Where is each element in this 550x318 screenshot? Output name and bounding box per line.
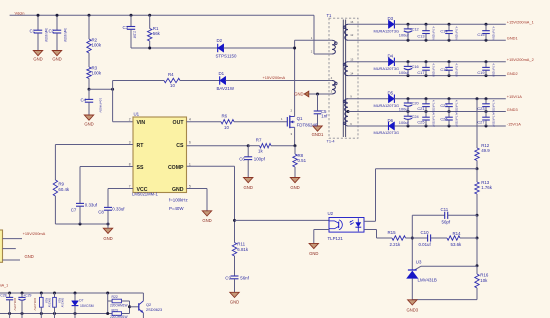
wire load bus (0, 292, 143, 294)
svg-text:1: 1 (189, 162, 191, 166)
svg-text:C9: C9 (225, 275, 231, 280)
ground (C6) (244, 178, 253, 190)
capacitor C11 (412, 207, 477, 224)
svg-text:1nf: 1nf (321, 114, 328, 119)
resistor R3 (87, 65, 102, 78)
svg-text:+C29: +C29 (23, 294, 31, 298)
resistor R16 (475, 266, 489, 300)
svg-text:C23: C23 (477, 106, 484, 111)
svg-text:4.7uF/25V: 4.7uF/25V (455, 63, 459, 77)
secondary winding 4 (343, 110, 349, 126)
svg-text:100uf: 100uf (399, 70, 410, 75)
svg-text:C10: C10 (421, 230, 430, 235)
svg-text:4.7uF/25V: 4.7uF/25V (492, 113, 496, 127)
wire SS pin (80, 166, 133, 168)
svg-text:5: 5 (189, 184, 191, 188)
svg-text:R4: R4 (168, 72, 174, 77)
capacitor C14 (440, 23, 458, 42)
svg-text:MURA120T3G: MURA120T3G (374, 130, 400, 135)
svg-text:16: 16 (350, 20, 354, 24)
svg-text:C17: C17 (417, 70, 424, 75)
svg-text:3nF/400V: 3nF/400V (44, 28, 48, 43)
svg-text:C22: C22 (440, 103, 447, 108)
wire fb left vertical (411, 215, 414, 270)
U1 pin numbers (129, 118, 191, 189)
resistor R1 (148, 14, 161, 48)
svg-text:4.7uF/25V: 4.7uF/25V (492, 100, 496, 114)
svg-text:GND: GND (172, 187, 184, 193)
primary winding pins (311, 20, 354, 126)
node source/CS (294, 144, 297, 147)
primary winding (332, 40, 337, 54)
svg-text:GND: GND (290, 185, 299, 190)
svg-text:U2: U2 (328, 211, 334, 216)
resistor R23 (110, 301, 131, 318)
svg-text:COMP: COMP (168, 165, 184, 171)
svg-text:2SD0623: 2SD0623 (146, 307, 162, 312)
svg-text:FDT86246: FDT86246 (297, 123, 318, 128)
svg-text:100pf: 100pf (254, 156, 266, 161)
svg-text:D6: D6 (388, 118, 394, 123)
wire J1 pin2 (3, 248, 16, 250)
net label +15V/200mA (J1) (23, 231, 46, 236)
svg-text:C2: C2 (49, 28, 55, 33)
svg-text:CS: CS (176, 143, 184, 149)
svg-text:C1: C1 (30, 28, 36, 33)
resistor R19 (53, 292, 65, 318)
svg-text:+15V/200mA_2: +15V/200mA_2 (507, 57, 534, 62)
transistor Q1 FDT86246 (281, 109, 318, 146)
svg-text:C18: C18 (440, 67, 447, 72)
wire R2-R3 (88, 53, 90, 67)
transistor Q2 2SD0623 (139, 293, 162, 318)
connector J1 (edge) (0, 230, 3, 262)
svg-text:D4: D4 (388, 54, 394, 59)
ground GND3 (U3) (406, 300, 418, 313)
svg-text:MURA120T3G: MURA120T3G (374, 103, 400, 108)
svg-text:GND3: GND3 (507, 107, 518, 112)
ground (C2) (52, 51, 61, 62)
svg-text:STPS1150: STPS1150 (216, 54, 237, 59)
resistor R18 (40, 292, 52, 318)
resistor R22 (106, 292, 129, 316)
wire primary top to drain (295, 39, 332, 41)
svg-text:T1: T1 (327, 13, 333, 18)
resistor R14 (447, 231, 477, 247)
wire J1 pin1 (3, 238, 23, 240)
aux winding (332, 81, 337, 95)
svg-text:0.01uf: 0.01uf (419, 242, 432, 247)
svg-text:R13: R13 (481, 180, 490, 185)
svg-text:0.33uf: 0.33uf (112, 207, 125, 212)
capacitor C8 (98, 189, 125, 225)
wire COMP to opto (235, 219, 330, 221)
svg-text:D2: D2 (217, 38, 223, 43)
capacitor C19 (477, 60, 495, 77)
wire bus to primary bottom (314, 15, 332, 54)
capacitor C9 (225, 275, 249, 292)
svg-text:6: 6 (189, 140, 191, 144)
ground (C4) (84, 115, 93, 127)
svg-text:GND1: GND1 (312, 132, 324, 137)
svg-text:P=40W: P=40W (169, 206, 184, 211)
svg-text:4: 4 (189, 118, 191, 122)
svg-text:GND: GND (294, 92, 303, 97)
resistor R9 (53, 180, 70, 224)
svg-text:C28: C28 (0, 294, 6, 298)
svg-text:OUT: OUT (173, 120, 185, 126)
capacitor C26 (440, 112, 458, 128)
svg-text:GND: GND (52, 56, 61, 61)
capacitor C6 (239, 146, 265, 178)
net label +15V/200mA (aux) (263, 75, 286, 80)
capacitor C2 (49, 14, 67, 51)
svg-text:53.6k: 53.6k (451, 242, 463, 247)
capacitor C15 (477, 23, 495, 42)
svg-text:3nF/400V: 3nF/400V (63, 28, 67, 43)
svg-text:+15V/200mA: +15V/200mA (263, 75, 286, 80)
diode D5 MURA120T3G (348, 91, 506, 108)
diode D7 15VCSM (72, 292, 94, 318)
svg-text:100U/25V: 100U/25V (13, 298, 17, 311)
svg-text:C27: C27 (477, 120, 484, 125)
svg-text:49.9: 49.9 (481, 148, 490, 153)
svg-text:4.7uF/25V: 4.7uF/25V (455, 113, 459, 127)
svg-text:60.4k: 60.4k (58, 187, 70, 192)
svg-text:T1-4: T1-4 (327, 139, 336, 144)
svg-text:+15V/200mA_1: +15V/200mA_1 (507, 20, 534, 25)
U1 pin names (137, 120, 185, 193)
diode D6 MURA120T3G (348, 118, 506, 135)
svg-text:D5: D5 (388, 91, 394, 96)
wire Q2 base (130, 306, 139, 308)
ground (aux winding) (294, 91, 309, 97)
svg-text:C7: C7 (71, 208, 77, 213)
svg-text:100k: 100k (92, 71, 102, 76)
svg-text:4.7uF/25V: 4.7uF/25V (492, 63, 496, 77)
svg-text:4.7uF/25V: 4.7uF/25V (455, 26, 459, 40)
svg-text:4.7uF/25V: 4.7uF/25V (432, 113, 436, 127)
svg-text:+C12: +C12 (409, 27, 418, 32)
svg-text:MURA120T3G: MURA120T3G (374, 29, 400, 34)
svg-text:220OHM1W: 220OHM1W (110, 303, 128, 307)
node opto anode (476, 167, 479, 170)
wire Vdcin top bus (10, 14, 314, 16)
wire node to VIN riser (89, 88, 114, 91)
svg-text:C19: C19 (477, 70, 484, 75)
diode D1 BAV21W (180, 71, 332, 91)
wire to ref node (476, 238, 479, 267)
svg-text:C14: C14 (440, 29, 448, 34)
capacitor C23 (477, 97, 495, 114)
capacitor C21 (417, 97, 435, 114)
svg-text:4.7uF/25V: 4.7uF/25V (492, 26, 496, 40)
svg-text:C15: C15 (477, 32, 484, 37)
svg-text:100uf: 100uf (399, 33, 410, 38)
U1 value labels (132, 191, 188, 211)
wire aux winding bottom (309, 93, 332, 96)
resistor R6 (187, 114, 288, 130)
capacitor C17 (417, 60, 435, 77)
svg-text:100uf: 100uf (399, 120, 410, 125)
opto phototransistor (329, 220, 342, 230)
wire VCC pin (108, 188, 133, 190)
wire opto anode riser (364, 169, 477, 222)
svg-text:R6: R6 (222, 114, 228, 119)
net label GND (J1) (25, 254, 34, 259)
wire +15V to R12 (476, 97, 479, 148)
wire R3 to node (88, 79, 91, 91)
resistor R13 (475, 169, 493, 216)
svg-text:R16: R16 (480, 273, 489, 278)
svg-text:GND3: GND3 (406, 307, 418, 312)
ground (C1) (33, 51, 42, 62)
capacitor C12 (399, 23, 419, 42)
svg-text:10: 10 (170, 83, 175, 88)
resistor R12 (475, 143, 491, 169)
capacitor C1 (30, 14, 48, 51)
ground (VCC bus) (103, 228, 112, 241)
secondary winding 1 (343, 24, 348, 40)
resistor R7 (248, 138, 295, 154)
wire load rail B (0, 313, 130, 315)
wire ref row (414, 266, 477, 270)
net label +15V/200mA_2 (507, 57, 534, 62)
svg-text:R14: R14 (453, 231, 462, 236)
svg-text:100U/25V: 100U/25V (33, 298, 37, 311)
svg-text:GND1: GND1 (507, 36, 518, 41)
svg-text:C3: C3 (123, 25, 129, 30)
wire bottom fb (412, 299, 477, 301)
transformer T1 box (327, 13, 359, 144)
net label GND1 (507, 36, 518, 41)
svg-text:7: 7 (129, 184, 131, 188)
net label GND2 (507, 71, 518, 76)
svg-text:100k: 100k (92, 43, 102, 48)
svg-text:R15: R15 (388, 230, 397, 235)
svg-text:GND: GND (33, 56, 42, 61)
svg-text:-15V/1A: -15V/1A (507, 121, 521, 126)
capacitor C18 (440, 60, 458, 77)
svg-text:2.21k: 2.21k (390, 242, 402, 247)
svg-text:1k: 1k (258, 149, 263, 154)
svg-text:0.33uf: 0.33uf (85, 203, 98, 208)
svg-text:12: 12 (350, 33, 354, 37)
wire RT to R9 (55, 145, 133, 181)
ground GND1 (C5) (312, 126, 324, 137)
resistor R15 (388, 230, 413, 247)
svg-text:C26: C26 (440, 117, 447, 122)
wire J1 pin3 (3, 259, 21, 261)
svg-text:30K1W: 30K1W (47, 298, 51, 308)
svg-text:+C20: +C20 (409, 101, 419, 106)
wire SS/RT bottom bus (55, 223, 109, 226)
ground (C9) (230, 292, 239, 304)
resistor R4 (113, 72, 180, 88)
svg-text:C6: C6 (239, 156, 245, 161)
op-amp U1 LM5021 box (133, 112, 187, 193)
net label +15V/1A (507, 94, 522, 99)
diode D3 MURA120T3G (348, 16, 506, 33)
capacitor C27 (477, 112, 495, 128)
svg-text:D1: D1 (219, 71, 225, 76)
svg-text:Q1: Q1 (297, 116, 303, 121)
svg-text:LMV431B: LMV431B (418, 278, 437, 283)
svg-text:GND: GND (230, 300, 239, 305)
svg-text:C4: C4 (81, 98, 87, 103)
resistor R11 (232, 241, 249, 275)
svg-text:0.51: 0.51 (298, 158, 307, 163)
capacitor C25 (417, 112, 435, 128)
resistor R8 (293, 146, 307, 178)
svg-text:10nF/400V: 10nF/400V (99, 98, 103, 113)
svg-text:C8: C8 (98, 209, 104, 214)
node C11 right (476, 214, 479, 217)
capacitor C29 (18, 292, 36, 318)
secondary winding 2 (343, 62, 348, 76)
svg-text:1.76k: 1.76k (481, 185, 493, 190)
shunt regulator U3 LMV431B (406, 260, 437, 300)
svg-text:C25: C25 (417, 120, 424, 125)
capacitor C20 (399, 97, 420, 113)
svg-text:R9: R9 (58, 182, 64, 187)
svg-text:D7: D7 (79, 299, 83, 303)
wire GND3 rail (348, 111, 506, 113)
svg-text:100uf: 100uf (399, 106, 410, 111)
svg-text:RT: RT (137, 143, 145, 149)
svg-text:10k: 10k (480, 278, 488, 283)
wire GND1 rail (348, 39, 506, 41)
wire U1 GND pin (187, 189, 208, 211)
ground (opto) (309, 243, 318, 255)
svg-text:4.7uF/25V: 4.7uF/25V (455, 100, 459, 114)
svg-text:U1: U1 (134, 112, 140, 117)
svg-text:14: 14 (350, 71, 354, 75)
capacitor C5 (314, 94, 328, 126)
svg-text:GND: GND (84, 122, 93, 127)
svg-text:C21: C21 (417, 106, 424, 111)
svg-text:10: 10 (224, 125, 229, 130)
svg-text:VIN: VIN (137, 120, 146, 126)
svg-text:56pf: 56pf (442, 220, 451, 225)
svg-text:2: 2 (129, 118, 131, 122)
svg-text:+15V/200mA_1: +15V/200mA_1 (0, 283, 8, 287)
svg-text:GND2: GND2 (507, 71, 518, 76)
capacitor C10 (412, 230, 447, 247)
wire aux node down to VIN (113, 81, 133, 122)
svg-text:4.7uF/25V: 4.7uF/25V (432, 100, 436, 114)
wire drain node (293, 40, 296, 112)
diode D4 MURA120T3G (348, 54, 506, 71)
ground (R8) (290, 178, 299, 190)
wire COMP down (187, 166, 237, 242)
svg-text:+15V/1A: +15V/1A (507, 94, 522, 99)
capacitor C22 (440, 97, 458, 114)
svg-text:D3: D3 (388, 16, 394, 21)
capacitor C16 (399, 60, 419, 77)
svg-text:R22: R22 (112, 295, 118, 299)
net label GND3 (507, 107, 518, 112)
svg-text:GND: GND (244, 185, 253, 190)
net label +15V/200mA_1 (507, 20, 534, 25)
capacitor C7 (71, 167, 98, 225)
svg-text:6.81k: 6.81k (237, 247, 249, 252)
capacitor C13 (417, 23, 435, 42)
svg-text:R7: R7 (256, 138, 262, 143)
svg-text:15VCSM: 15VCSM (80, 304, 94, 308)
svg-text:SS: SS (137, 165, 144, 171)
optocoupler U2 TLP121 box (328, 211, 365, 241)
net label Vdcin (15, 10, 25, 15)
svg-text:f=100kHz: f=100kHz (169, 197, 188, 202)
ground (U1) (202, 211, 211, 223)
svg-text:LM5021MM-1: LM5021MM-1 (132, 191, 159, 196)
svg-text:C11: C11 (441, 207, 449, 212)
wire R13 to C10 node (476, 215, 479, 239)
wire GND2 rail (348, 75, 506, 77)
svg-text:+C16: +C16 (409, 64, 418, 69)
svg-text:15: 15 (350, 58, 354, 62)
svg-text:Vdcin: Vdcin (15, 10, 25, 15)
svg-text:U3: U3 (416, 260, 422, 265)
svg-text:C13: C13 (417, 33, 424, 38)
wire opto emitter (314, 230, 329, 244)
net label +15V/200mA_1 (load) (0, 283, 8, 287)
svg-text:R23: R23 (112, 309, 118, 313)
svg-text:4.7uF/25V: 4.7uF/25V (432, 26, 436, 40)
wire bus to ground (107, 224, 109, 228)
svg-text:56nf: 56nf (240, 275, 249, 280)
svg-text:3: 3 (129, 140, 131, 144)
svg-text:GND: GND (25, 254, 34, 259)
svg-text:30K1W: 30K1W (61, 298, 65, 308)
svg-text:R12: R12 (481, 143, 490, 148)
svg-text:GND: GND (103, 236, 112, 241)
svg-text:2.2nf: 2.2nf (133, 31, 137, 38)
transformer core (343, 20, 345, 138)
svg-text:8: 8 (129, 162, 131, 166)
secondary winding 3 (343, 99, 348, 112)
net label -15V/1A (507, 121, 521, 126)
svg-text:BAV21W: BAV21W (217, 86, 235, 91)
wire CS row (187, 144, 250, 147)
svg-text:GND: GND (309, 251, 318, 256)
svg-text:MURA120T3G: MURA120T3G (374, 66, 400, 71)
wire snubber bottom (131, 47, 218, 50)
svg-text:GND: GND (202, 218, 211, 223)
svg-text:+15V/200mA: +15V/200mA (23, 231, 46, 236)
capacitor C24 (399, 112, 420, 128)
wire opto cathode (364, 230, 392, 239)
svg-text:56k: 56k (153, 31, 161, 36)
svg-text:R11: R11 (237, 241, 245, 246)
diode D2 STPS1150 (216, 38, 295, 58)
opto LED (349, 218, 361, 231)
capacitor C3 (123, 14, 137, 48)
capacitor C28 (0, 292, 17, 318)
capacitor C4 (81, 89, 103, 115)
svg-text:R8: R8 (298, 153, 304, 158)
svg-text:+C24: +C24 (409, 114, 419, 119)
resistor R2 (87, 14, 102, 53)
svg-text:4.7uF/25V: 4.7uF/25V (432, 63, 436, 77)
svg-text:TLP121: TLP121 (328, 236, 344, 241)
